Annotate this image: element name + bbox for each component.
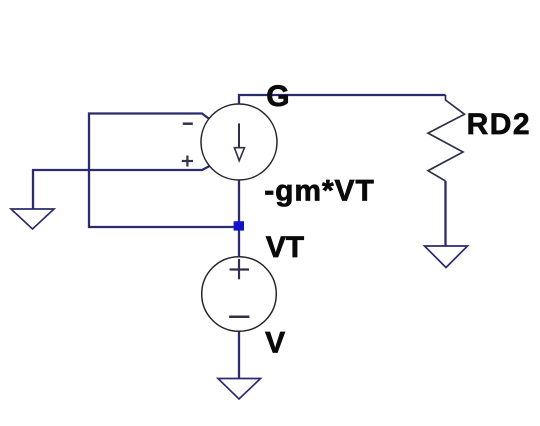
svg-text:-gm*VT: -gm*VT <box>264 175 374 208</box>
svg-text:G: G <box>266 80 289 113</box>
svg-text:RD2: RD2 <box>467 108 532 141</box>
svg-text:VT: VT <box>266 231 304 264</box>
svg-text:V: V <box>265 327 285 360</box>
